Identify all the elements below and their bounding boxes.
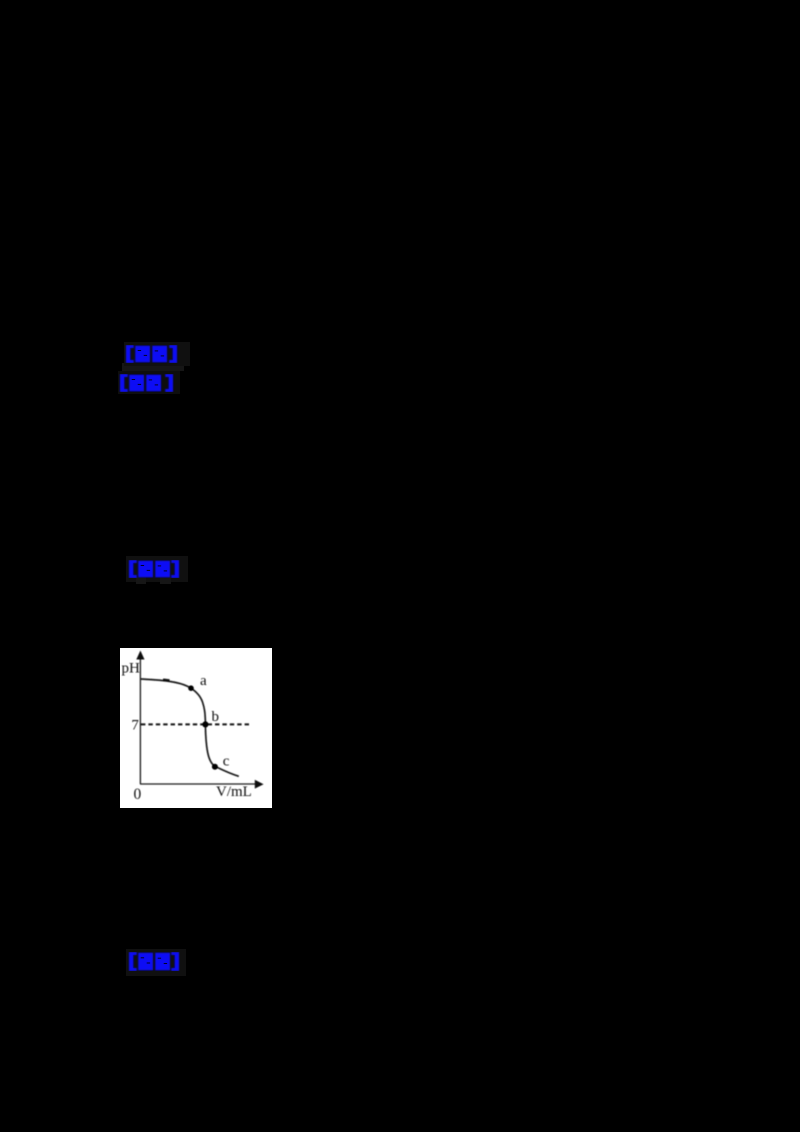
svg-text:b: b (212, 709, 220, 725)
svg-text:c: c (223, 753, 230, 769)
svg-text:0: 0 (134, 786, 142, 803)
svg-text:a: a (200, 673, 207, 689)
svg-text:pH: pH (122, 661, 141, 677)
svg-text:7: 7 (131, 717, 139, 733)
svg-text:V/mL: V/mL (216, 784, 252, 800)
